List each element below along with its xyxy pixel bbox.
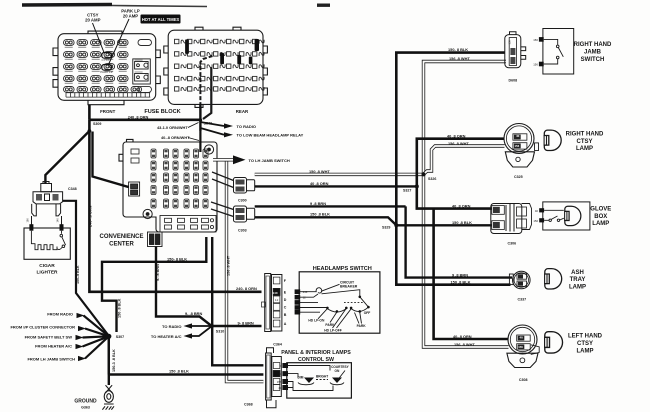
splice S309 xyxy=(88,129,92,133)
cigar lighter box xyxy=(24,224,70,259)
svg-text:TO LOW BEAM HEADLAMP RELAY: TO LOW BEAM HEADLAMP RELAY xyxy=(237,133,304,138)
fuse block FRONT relay sub-box xyxy=(133,59,151,84)
svg-text:40-.8 ORN/WHT: 40-.8 ORN/WHT xyxy=(161,135,190,140)
arrow TO LOW BEAM HEADLAMP RELAY xyxy=(200,128,303,138)
svg-text:FROM SAFETY BELT SW: FROM SAFETY BELT SW xyxy=(25,334,73,339)
right hand jamb switch box xyxy=(543,29,574,75)
svg-text:CONTROL SW: CONTROL SW xyxy=(298,357,334,363)
glove box lamp box xyxy=(543,202,590,230)
svg-text:9 .8 BRN: 9 .8 BRN xyxy=(452,272,468,277)
svg-text:9- .8 BRN: 9- .8 BRN xyxy=(156,264,160,281)
arrow FROM RADIO xyxy=(47,311,109,336)
svg-text:CTSY: CTSY xyxy=(101,58,109,62)
svg-text:9 .8 BRN: 9 .8 BRN xyxy=(310,201,326,206)
svg-text:C337: C337 xyxy=(518,298,527,302)
wire S309 branch into convenience center xyxy=(93,132,129,188)
convenience center mount hole bottom-left xyxy=(143,209,152,218)
svg-text:S327: S327 xyxy=(403,188,411,192)
svg-text:FROM LH JAMB SWITCH: FROM LH JAMB SWITCH xyxy=(27,357,75,362)
glove box pins xyxy=(539,208,544,212)
svg-text:CTSY: CTSY xyxy=(576,139,592,145)
headlamps switch box xyxy=(299,272,380,333)
svg-text:43-1.0 ORN/WHT: 43-1.0 ORN/WHT xyxy=(157,125,188,130)
splice S326 xyxy=(422,172,426,176)
svg-text:RIGHT HAND: RIGHT HAND xyxy=(574,42,612,48)
svg-text:FROM I/P CLUSTER CONNECTOR: FROM I/P CLUSTER CONNECTOR xyxy=(10,325,75,330)
glove box lamp internals xyxy=(544,210,564,221)
svg-text:REAR: REAR xyxy=(236,109,249,114)
svg-text:150- 8 BLK: 150- 8 BLK xyxy=(167,256,187,261)
svg-text:LAMP: LAMP xyxy=(576,146,593,152)
HOT AT ALL TIMES tag xyxy=(141,15,181,24)
wire C348 right side down (150 BLK) xyxy=(63,201,109,336)
svg-text:9- .8 BRN: 9- .8 BRN xyxy=(185,311,202,316)
connector C364 xyxy=(262,274,282,332)
jamb switch pins xyxy=(539,37,544,42)
lamp symbol RH ctsy xyxy=(544,130,561,150)
fuse block REAR clip grid xyxy=(175,39,265,91)
svg-text:TO LH JAMB SWITCH: TO LH JAMB SWITCH xyxy=(249,158,290,163)
wire S343 into convenience center xyxy=(199,131,201,152)
svg-text:GLOVE: GLOVE xyxy=(590,206,611,212)
svg-text:150: 150 xyxy=(508,40,512,45)
svg-text:150- 8 BLK: 150- 8 BLK xyxy=(448,47,468,52)
svg-text:HD LP-OFF: HD LP-OFF xyxy=(324,329,342,333)
svg-text:C325: C325 xyxy=(514,175,523,179)
svg-text:156 .8 WHT: 156 .8 WHT xyxy=(449,56,470,61)
wire inside rear block to S343 (dashed) xyxy=(200,56,212,104)
connector C300 xyxy=(212,172,255,193)
wire 150 BLK conv center riser and to S307 jog xyxy=(102,237,206,332)
connector C368 xyxy=(266,348,282,408)
svg-text:150 .8 BLK: 150 .8 BLK xyxy=(169,369,189,374)
connector C348 xyxy=(32,182,63,216)
glove box bulb symbol xyxy=(565,206,581,225)
svg-text:PANEL & INTERIOR LAMPS: PANEL & INTERIOR LAMPS xyxy=(281,350,351,356)
svg-text:FUSE BLOCK: FUSE BLOCK xyxy=(144,109,180,115)
svg-text:TO RADIO: TO RADIO xyxy=(162,324,181,329)
svg-text:150: 150 xyxy=(533,219,538,223)
connector C306 xyxy=(491,204,532,234)
svg-text:A: A xyxy=(284,322,287,326)
arrow TO RADIO (from S310) xyxy=(162,323,212,329)
arrow FROM HEATER A/C xyxy=(35,336,109,349)
hollow arrow TO LH JAMB SWITCH xyxy=(213,158,233,161)
convenience center inlet connector (left) xyxy=(129,182,140,196)
svg-text:C364: C364 xyxy=(273,343,282,347)
svg-text:HEADLAMPS SWITCH: HEADLAMPS SWITCH xyxy=(313,266,372,272)
svg-text:RIGHT HAND: RIGHT HAND xyxy=(566,131,604,137)
wire 240 ORN trunk down left xyxy=(89,120,261,292)
svg-text:S309: S309 xyxy=(93,122,101,126)
wire 9 .8 BRN C303 to BRN trunk xyxy=(255,205,406,207)
wire conv center to S310/C368 vertical xyxy=(212,237,263,365)
wire S343 vertical xyxy=(199,104,201,131)
svg-text:150 .8 WHT: 150 .8 WHT xyxy=(309,169,330,174)
svg-text:150 .8 BLK: 150 .8 BLK xyxy=(117,298,121,318)
svg-text:156: 156 xyxy=(518,345,523,349)
svg-text:PARK LP: PARK LP xyxy=(100,70,112,74)
wire 150 .8 BLK S307 to C368 xyxy=(109,373,264,375)
svg-text:TRAY: TRAY xyxy=(570,277,586,283)
wire 40 ORN branch down to C308 xyxy=(434,209,508,339)
fuse block FRONT terminal comb xyxy=(66,93,150,97)
svg-text:CONVENIENCE: CONVENIENCE xyxy=(99,234,143,240)
CTSY fuse w/ leader xyxy=(93,23,112,62)
svg-text:CENTER: CENTER xyxy=(109,242,134,248)
svg-text:CTSY: CTSY xyxy=(577,341,593,347)
svg-text:S307: S307 xyxy=(116,335,124,339)
svg-text:150 .8 BLK: 150 .8 BLK xyxy=(310,212,330,217)
connector C308 xyxy=(507,325,539,368)
wire front block to 240 ORN corner xyxy=(88,105,91,120)
wire 150 BLK S329 to C306 xyxy=(396,224,492,226)
hollow 156 WHT riser to C325 xyxy=(424,146,505,174)
convenience center outline xyxy=(119,139,217,232)
splice S310 xyxy=(210,324,214,328)
svg-text:240 .8 ORN: 240 .8 ORN xyxy=(128,114,149,119)
PARK LP fuse w/ leader xyxy=(100,19,129,74)
svg-text:140: 140 xyxy=(56,218,60,223)
svg-text:150-3 .8 BLK: 150-3 .8 BLK xyxy=(112,349,116,372)
svg-text:BRIGHT: BRIGHT xyxy=(316,375,328,379)
svg-text:140: 140 xyxy=(272,291,277,295)
svg-text:G363: G363 xyxy=(81,405,90,409)
svg-text:20 AMP: 20 AMP xyxy=(85,18,100,23)
connector C325 xyxy=(504,124,539,168)
svg-text:156 .8 WHT: 156 .8 WHT xyxy=(448,141,469,146)
hollow 156 WHT trunk (D608-S326-C308) xyxy=(424,62,509,348)
wire 9 BRN trunk (C303 to C337) xyxy=(406,206,512,277)
svg-text:40: 40 xyxy=(535,209,539,213)
svg-text:150-.8 BLK: 150-.8 BLK xyxy=(76,265,80,284)
wire 40 .8 ORN C300 to S327 xyxy=(255,185,417,187)
wire 9 BRN S310 to C364 pin A xyxy=(212,325,262,327)
svg-text:JAMB: JAMB xyxy=(584,49,602,55)
svg-text:240- 8 ORN: 240- 8 ORN xyxy=(236,286,257,291)
svg-text:9- 8 BRN: 9- 8 BRN xyxy=(238,320,254,325)
wire 150 .8 WHT C300 to S326 xyxy=(255,173,424,176)
svg-text:150 .8 BLK: 150 .8 BLK xyxy=(452,220,472,225)
svg-text:HD LP-ON: HD LP-ON xyxy=(308,318,325,322)
arrow FROM LH JAMB SWITCH xyxy=(27,336,108,361)
svg-text:SWITCH: SWITCH xyxy=(581,57,605,63)
lamp symbol ash tray xyxy=(545,269,562,289)
svg-text:TO HEATER A/C: TO HEATER A/C xyxy=(151,334,182,339)
ground G363 xyxy=(102,385,114,409)
page edge line xyxy=(317,4,330,7)
convenience center bottom fuse row strip xyxy=(160,216,216,232)
circuit breaker + internals xyxy=(300,284,368,328)
svg-text:40 .8 ORN: 40 .8 ORN xyxy=(310,181,329,186)
splice S329 xyxy=(394,223,398,227)
svg-text:C308: C308 xyxy=(519,378,528,382)
svg-text:C: C xyxy=(284,306,287,310)
wire from rear block pin down xyxy=(203,67,211,119)
svg-text:156: 156 xyxy=(533,63,538,67)
jamb switch contacts xyxy=(544,39,564,64)
svg-text:TO RADIO: TO RADIO xyxy=(237,124,256,129)
svg-text:D608: D608 xyxy=(509,79,518,83)
svg-text:LAMP: LAMP xyxy=(577,348,594,354)
svg-text:160: 160 xyxy=(26,218,30,223)
svg-text:S329: S329 xyxy=(382,225,390,229)
svg-text:C348: C348 xyxy=(68,187,77,191)
fuse block FRONT fuse grid xyxy=(64,40,152,93)
hollow trunk 156 WHT (middle) down to C368 xyxy=(227,162,264,382)
connector C337 xyxy=(509,271,530,289)
fuse block REAR outline xyxy=(164,27,268,107)
svg-text:BREAKER: BREAKER xyxy=(340,285,358,289)
connector C360 under convenience center xyxy=(148,232,163,247)
svg-text:LAMP: LAMP xyxy=(592,221,609,227)
convenience center fuse grid xyxy=(131,149,208,208)
svg-text:156 .8 WHT: 156 .8 WHT xyxy=(226,255,230,276)
arrow TO HEATER A/C (from S310) xyxy=(151,326,212,339)
lamp symbol LH ctsy xyxy=(545,332,563,353)
svg-text:FRONT: FRONT xyxy=(100,109,115,114)
wire S307 to 150 BLK bottom run xyxy=(108,336,110,374)
svg-text:C303: C303 xyxy=(238,229,247,233)
connector D608 xyxy=(505,32,526,68)
svg-text:156: 156 xyxy=(515,144,520,148)
wire 150 BLK trunk right (D608-S329-C337) xyxy=(396,53,510,285)
arrow FROM SAFETY BELT SW xyxy=(25,334,109,340)
svg-text:40: 40 xyxy=(520,336,524,340)
svg-text:20 AMP: 20 AMP xyxy=(123,14,138,19)
svg-text:40 .8 ORN: 40 .8 ORN xyxy=(452,203,471,208)
svg-text:150: 150 xyxy=(533,38,538,42)
svg-text:LIGHTER: LIGHTER xyxy=(36,269,58,275)
convenience center mount hole top-right xyxy=(204,145,213,154)
wire S307 down to ground xyxy=(108,336,110,385)
svg-text:BOX: BOX xyxy=(594,214,607,220)
arrow TO RADIO (from S343) xyxy=(200,122,256,129)
svg-text:GROUND: GROUND xyxy=(74,398,97,404)
wire S309 diagonal to C348 xyxy=(45,131,89,184)
svg-text:CIGAR: CIGAR xyxy=(39,263,55,269)
svg-text:40: 40 xyxy=(516,134,520,138)
svg-text:S326: S326 xyxy=(428,177,436,181)
svg-text:240- .8 ORN: 240- .8 ORN xyxy=(89,205,93,227)
arrow FROM I/P CLUSTER CONNECTOR xyxy=(10,325,108,337)
svg-text:C306: C306 xyxy=(508,242,517,246)
svg-text:C368: C368 xyxy=(244,402,253,406)
svg-text:OFF: OFF xyxy=(364,311,371,315)
svg-text:40-.8 ORN: 40-.8 ORN xyxy=(453,334,472,339)
headlamps switch pins xyxy=(295,289,301,314)
label 43-1.0 ORN/WHT xyxy=(157,123,199,131)
fuse block REAR installed fuses (black bars) xyxy=(185,39,259,64)
panel switch internals xyxy=(288,366,344,391)
svg-text:PARK: PARK xyxy=(357,324,367,328)
svg-text:ASH: ASH xyxy=(571,270,584,276)
splice S307 xyxy=(106,334,124,340)
panel lamps switch box xyxy=(287,363,352,398)
splice S327 xyxy=(415,184,419,188)
panel switch pins xyxy=(282,363,288,390)
svg-text:C300: C300 xyxy=(238,198,247,202)
wire 9 .8 BRN conv center to S310 xyxy=(156,247,212,327)
svg-text:FROM HEATER A/C: FROM HEATER A/C xyxy=(35,344,72,349)
svg-text:B: B xyxy=(284,313,287,317)
svg-text:S310: S310 xyxy=(216,329,224,333)
svg-text:40 .8 ORN: 40 .8 ORN xyxy=(447,133,466,138)
svg-text:DIM: DIM xyxy=(298,376,304,380)
label 40-.8 ORN/WHT xyxy=(161,135,199,141)
wire 40 ORN trunk (C325-S327-C306) xyxy=(417,139,505,209)
svg-text:ON: ON xyxy=(335,369,340,373)
wire 240 ORN horizontal from S309 corner to S343 xyxy=(89,119,200,122)
svg-text:HOT AT ALL TIMES: HOT AT ALL TIMES xyxy=(142,17,180,22)
splice S343 xyxy=(199,118,203,122)
svg-text:12: 12 xyxy=(275,298,279,302)
fuse block FRONT outline xyxy=(53,31,160,105)
svg-text:FROM RADIO: FROM RADIO xyxy=(47,311,73,316)
svg-text:156 .8 WHT: 156 .8 WHT xyxy=(454,342,475,347)
svg-text:150 .8 BLK: 150 .8 BLK xyxy=(451,280,471,285)
svg-text:D: D xyxy=(284,298,287,302)
wire C348 to cigar lighter left pin xyxy=(31,216,33,226)
wire 150 .8 BLK C303 to S329 xyxy=(255,217,397,225)
svg-text:LAMP: LAMP xyxy=(569,285,586,291)
svg-text:PARK: PARK xyxy=(325,323,335,327)
connector C303 xyxy=(211,202,255,222)
svg-text:LEFT HAND: LEFT HAND xyxy=(568,334,603,340)
svg-text:140: 140 xyxy=(303,290,308,294)
